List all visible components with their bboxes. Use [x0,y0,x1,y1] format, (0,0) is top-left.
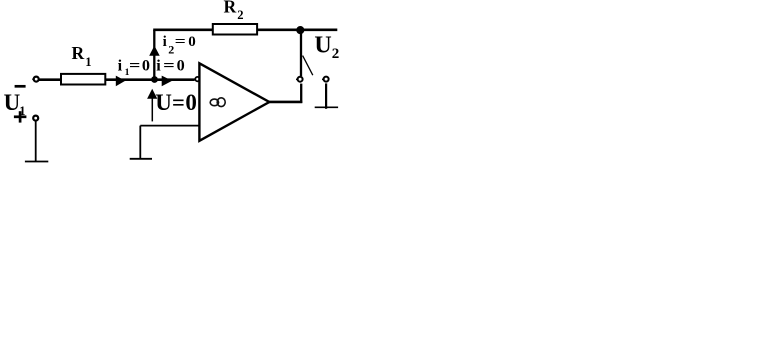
voltage arrow U=0 tail [151,96,153,121]
op-amp output wire [269,101,303,104]
input terminal lower circle [33,116,38,121]
op-amp infinity gain symbol [210,98,225,107]
svg-text:R: R [72,43,85,63]
svg-text:i: i [156,56,161,74]
output vertical wire upper [300,30,302,76]
node junction dot [151,76,158,83]
output terminal circle left [298,77,303,82]
svg-text:0: 0 [177,56,185,74]
non-inverting input wire horizontal [140,125,199,127]
ground right [315,106,338,108]
svg-text:U: U [314,32,331,58]
svg-text:2: 2 [332,46,340,62]
svg-text:=: = [129,56,140,74]
resistor R1 [61,74,105,85]
wire terminal to R1 [38,78,61,81]
svg-text:U: U [4,90,21,115]
ground left [25,161,48,163]
wire R1 to op-amp input [106,78,195,81]
svg-text:2: 2 [237,8,243,22]
svg-text:0: 0 [188,34,196,50]
top feedback wire left segment [153,28,213,31]
label U1 plus sign [14,111,27,122]
svg-text:R: R [224,0,237,17]
current arrow i1 [116,76,126,87]
input terminal upper circle nub [32,78,33,80]
output terminal circle right nub [322,78,323,80]
input terminal upper circle [34,77,39,82]
resistor R2 [213,24,257,35]
svg-text:0: 0 [185,90,197,115]
svg-text:0: 0 [142,56,150,74]
svg-text:=: = [172,90,185,115]
wire lower terminal to ground [35,121,37,161]
svg-text:=: = [175,34,186,50]
svg-text:2: 2 [168,43,174,57]
op-amp U1 triangle [199,63,269,141]
label U1 minus sign [15,85,26,88]
feedback vertical wire [153,30,155,80]
voltage arrow U=0 head [147,89,157,99]
wire right terminal to ground [325,83,327,108]
current arrow i2 (up) [149,46,160,56]
non-inverting input wire vertical [139,126,141,159]
output terminal circle right [324,77,329,82]
svg-text:=: = [163,56,175,74]
output terminal circle left nub [296,78,297,80]
ground middle [130,158,152,160]
switch slanted line [303,56,313,76]
svg-text:i: i [118,56,123,74]
output node dot [296,26,304,34]
top feedback wire right segment [258,28,337,31]
svg-text:i: i [163,34,167,50]
output vertical wire lower [300,84,302,103]
svg-text:U: U [155,90,172,115]
svg-text:1: 1 [85,55,91,69]
current arrow i (after node) [162,76,173,87]
op-amp input terminal circle [195,77,199,81]
